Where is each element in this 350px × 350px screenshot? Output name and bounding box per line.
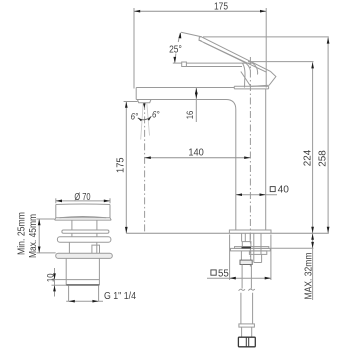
spout bottom edge with fillet [136,100,236,110]
minmax dim line [38,219,40,253]
drain O70 ext right [109,198,111,203]
drain tail step line [66,279,99,281]
dim G line [66,300,103,302]
drain thread top line [66,284,99,286]
dim sq55 line [207,277,271,279]
arrow MAX32 up [311,234,314,240]
arrow 6deg right [148,116,152,120]
base plate [229,230,271,233]
water stream left [141,103,144,140]
hose top nut [242,242,251,247]
hex nut facet [246,337,248,347]
arrow 6deg left [138,118,142,121]
arrow MAX32 down [311,242,314,248]
arrow G right [92,300,98,303]
dim 25deg arc lower segment [175,54,176,63]
lever ghost face [241,72,251,87]
svg-text:175: 175 [214,2,228,13]
washer plate [235,247,269,249]
dim 25deg arc upper segment [178,33,180,42]
arrow 258 down [327,227,330,233]
arrow 140 right [244,156,250,159]
break squiggle left [239,289,245,291]
arrow 16 up [195,88,198,94]
dim 175 top left extension [133,8,135,89]
cartridge cap curve [242,63,245,88]
drain flange3 [56,253,113,258]
column centerline [249,57,251,268]
arrow 175 left down [125,227,128,233]
arrow 175 left up [125,102,128,108]
arrow sq40 right [260,193,266,196]
horseshoe plate [231,248,271,251]
drain disc2 [57,237,111,242]
arrow 10 up-outside [53,285,56,291]
svg-text:10: 10 [45,273,55,282]
water stream right [147,103,150,136]
arrow 16 down [195,93,198,99]
svg-text:Max. 45mm: Max. 45mm [28,214,39,258]
svg-text:175: 175 [116,157,127,173]
hose upper segment [241,251,250,260]
svg-text:258: 258 [317,150,328,167]
dim 224 line [312,62,314,233]
arrow 224 down [311,227,314,233]
drain dim O70 line [56,200,110,202]
counter line [126,232,328,234]
drain cap inner dome [60,216,107,217]
arrow 224 up [311,62,314,68]
arrow water flow down [143,103,146,108]
drain stem [72,220,97,230]
drain disc1 [62,230,109,233]
minmax ext top [37,218,55,220]
arrow 175 top left [134,10,140,13]
mounting nut [249,251,266,255]
spout left edge [135,88,137,100]
svg-text:Ø 70: Ø 70 [74,192,91,203]
column right edge [265,89,267,230]
lever grip end [251,71,276,86]
dim 258 extension line [203,36,329,38]
arrow 25deg up [179,32,182,38]
arrow 25deg down [173,57,176,63]
svg-text:140: 140 [188,148,204,159]
svg-text:40: 40 [278,184,290,195]
drain neck2 [69,242,96,253]
stream centerline [144,103,146,233]
dim 175 top line [134,10,266,12]
arrow G left [69,300,75,303]
hose mid segment [242,265,251,289]
dim 16 line [195,88,197,122]
lever closed tip cap [182,62,187,67]
dim 175 left top extension [124,101,138,103]
dim MAX32 extension [271,247,314,249]
dim 10 ext bottom [52,284,67,286]
svg-text:6°: 6° [131,112,139,122]
arrow 175 top right [260,10,266,13]
lever open mid edge [199,40,267,72]
6deg arc [138,116,152,119]
dim 10 ext top [52,279,67,281]
arrow sq55 left [230,277,236,280]
arrow sq40 left [236,193,242,196]
hex nut [238,337,255,347]
svg-text:6°: 6° [152,109,160,119]
dim 140 line [145,157,251,159]
drain neck1 [72,233,97,237]
arrow minmax up [38,219,41,225]
dim sq55 extension left [229,235,231,281]
arrow O70 right [104,200,110,203]
dim 258 line [327,37,329,233]
lever open top edge [202,37,271,71]
svg-text:Min. 25mm: Min. 25mm [17,212,28,255]
arrow 140 left [145,156,151,159]
drain tail upper [66,258,99,285]
spout top edge [136,87,234,89]
sq40 square symbol [270,187,275,192]
drain cap base lip [55,218,112,220]
aerator [137,100,151,103]
dim 25deg reference line left of cap [173,62,182,64]
right tube below nut [254,254,262,262]
column left edge [235,110,237,231]
dim 224 extension line [248,61,314,63]
lever closed top edge [186,62,252,64]
arrow 10 down-outside [53,273,56,279]
hose collar dark [240,260,252,264]
break squiggle right [248,289,254,291]
svg-text:MAX. 32mm: MAX. 32mm [303,253,314,300]
arrow O70 left [56,200,62,203]
shank verticals under counter [241,233,243,242]
arrow 258 up [327,37,330,43]
ferrule collar [239,324,255,327]
sq55 square symbol [211,270,216,275]
dim MAX32 line [312,233,314,300]
hose short segment [242,327,252,337]
svg-text:G 1" 1/4: G 1" 1/4 [104,291,136,302]
arrow sq55 right [265,277,271,280]
arrowheads [38,10,330,303]
lever closed end face [253,63,258,75]
svg-text:16: 16 [185,111,195,120]
drain thread section [69,286,99,302]
lever open tip cap [199,37,202,41]
drain O70 ext left [55,198,57,203]
svg-text:224: 224 [302,149,313,166]
dim 175 left line [125,102,127,234]
arrow minmax down [38,247,41,253]
dim 175 top right extension [265,8,267,88]
dim sq55 extension right [270,235,272,281]
svg-text:55: 55 [218,269,229,280]
lever open bottom edge [204,42,251,71]
minmax ext bottom [37,252,56,254]
dim 10 line [54,268,56,297]
hose lower segment [241,293,253,324]
svg-text:25°: 25° [169,44,182,55]
drain overflow notch [92,245,100,253]
clamp hatch dark [242,247,252,249]
dim 25deg angled extension ray [181,32,201,37]
drain cap cylinder [56,204,110,218]
pivot base plate on column top [234,86,268,89]
lever closed bottom edge [186,66,242,68]
dim sq40 line [236,194,277,196]
